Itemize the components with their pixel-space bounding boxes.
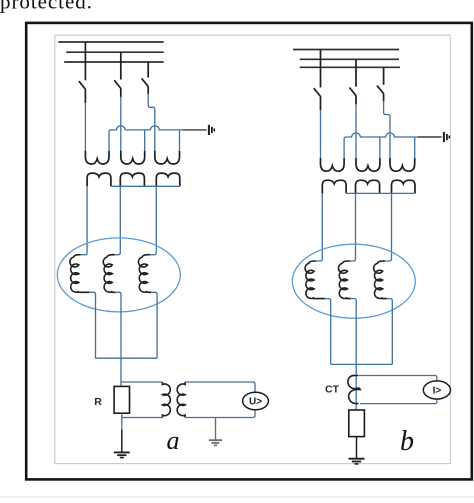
delta link wire (a) <box>111 185 180 187</box>
faint rule below figure <box>0 496 474 498</box>
disconnector switch QS2 (a) <box>120 52 122 79</box>
disconnector switch QS3 (a) <box>147 62 149 78</box>
wire phase C jog to transformer (a) <box>148 94 155 152</box>
earth symbol neutral (a) <box>208 125 210 135</box>
svg-text:R: R <box>94 396 102 408</box>
bus L3 (b) <box>300 66 400 68</box>
earth symbol below resistor (b) <box>349 458 365 460</box>
bus L1 (b) <box>293 49 399 51</box>
transformer secondary winding w3 (b) <box>392 180 416 193</box>
W2 right leg riser (a) <box>144 130 146 151</box>
bus L2 (b) <box>300 58 399 60</box>
stator phase coil W (a) <box>138 255 152 293</box>
bus L2 (a) <box>66 51 164 53</box>
wire w1 to stator U (b) <box>315 193 323 261</box>
wire phase B to transformer (b) <box>355 104 357 158</box>
W2 right leg riser (b) <box>379 137 381 158</box>
coil V neutral lead down (a) <box>115 292 121 386</box>
stator phase coil V (b) <box>338 261 351 299</box>
relay loop bottom wire (a) <box>185 410 255 418</box>
W3 right leg riser (b) <box>414 137 416 158</box>
voltage transformer secondary coil (a) <box>177 382 185 418</box>
transformer secondary winding w2 (a) <box>120 173 144 186</box>
bus L1 (a) <box>58 41 163 43</box>
wire w2 to stator V (a) <box>114 186 121 254</box>
stator phase coil V (a) <box>103 255 116 293</box>
earth symbol below R (a) <box>114 451 130 453</box>
transformer primary winding W3 (a) <box>155 151 180 164</box>
disconnector switch QS3 (b) <box>383 67 385 85</box>
svg-text:protected.: protected. <box>0 0 93 14</box>
stator phase coil U (b) <box>305 261 325 299</box>
transformer primary winding W2 (b) <box>356 158 380 171</box>
disconnector switch QS1 (a) <box>84 42 86 80</box>
wire w3 to stator W (a) <box>149 186 157 254</box>
figure inner light border <box>55 35 451 464</box>
transformer secondary winding w3 (a) <box>156 173 180 186</box>
wire resistor to earth (a) <box>121 413 123 430</box>
stator phase coil W (b) <box>374 261 388 299</box>
wire w2 to stator V (b) <box>349 193 356 261</box>
W3 right leg riser (a) <box>179 130 181 151</box>
svg-text:I>: I> <box>433 386 442 397</box>
wire w3 to stator W (b) <box>384 193 392 261</box>
wire phase C jog to transformer (b) <box>384 101 390 158</box>
coil W return wire (b) <box>386 299 392 365</box>
wire resistor to earth (b) <box>356 437 358 459</box>
wire to voltage transformer primary (a) <box>121 381 162 383</box>
svg-text:b: b <box>400 426 414 457</box>
relay loop top wire (a) <box>185 382 255 392</box>
wire phase A to transformer (a) <box>84 103 86 152</box>
svg-text:CT: CT <box>325 383 340 395</box>
voltage transformer primary coil (a) <box>162 382 170 418</box>
transformer secondary winding w1 (b) <box>322 180 346 193</box>
neutral lead to earth (b) <box>418 136 442 138</box>
transformer primary winding W2 (a) <box>121 151 145 164</box>
coil V lead through CT (b) <box>350 299 356 410</box>
transformer primary winding W3 (b) <box>390 158 415 171</box>
coil W return wire (a) <box>151 292 157 358</box>
relay loop bottom wire (b) <box>360 399 437 404</box>
neutral lead to earth (a) <box>183 129 207 131</box>
current transformer CT secondary loops <box>348 375 360 403</box>
wire phase B to transformer (a) <box>120 97 122 151</box>
stator phase coil U (a) <box>70 255 90 293</box>
wire from voltage transformer primary bottom (a) <box>121 417 162 419</box>
coil U return wire (a) <box>89 292 96 358</box>
svg-text:a: a <box>167 426 180 455</box>
wire w1 to stator U (a) <box>80 186 88 254</box>
overvoltage relay U> circle (a) <box>243 392 269 410</box>
delta link wire (b) <box>346 192 415 194</box>
relay loop top wire (b) <box>359 376 437 382</box>
earth symbol secondary (a) <box>209 439 222 441</box>
grounding resistor box (b) <box>349 410 365 437</box>
W1 right leg riser (a) <box>109 130 111 151</box>
overcurrent relay I> circle (b) <box>423 381 450 399</box>
disconnector switch QS2 (b) <box>355 59 357 86</box>
star point link (a) <box>96 357 158 359</box>
neutral bus with crossover hops (b) <box>346 133 418 137</box>
wire phase A to transformer (b) <box>320 110 322 158</box>
W1 right leg riser (b) <box>344 137 346 158</box>
disconnector switch QS1 (b) <box>320 50 322 88</box>
transformer secondary winding w1 (a) <box>87 173 111 186</box>
coil U return wire (b) <box>324 299 331 365</box>
svg-text:U>: U> <box>249 397 262 408</box>
earth symbol neutral (b) <box>443 132 445 142</box>
neutral bus with crossover hops (a) <box>111 126 183 130</box>
machine stator ellipse (b) <box>292 244 415 318</box>
star point link (b) <box>331 363 393 365</box>
transformer primary winding W1 (b) <box>321 158 345 171</box>
machine stator ellipse (a) <box>57 238 180 312</box>
transformer primary winding W1 (a) <box>85 151 109 164</box>
secondary earth tap (a) <box>215 418 217 440</box>
grounding resistor R box (a) <box>114 386 129 413</box>
bus L3 (a) <box>64 61 164 63</box>
transformer secondary winding w2 (b) <box>356 180 380 193</box>
